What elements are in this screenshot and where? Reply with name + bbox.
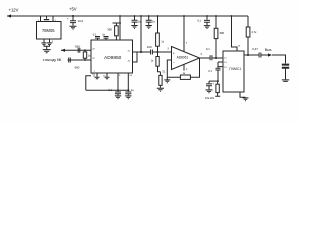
resistor R2 390	[115, 23, 117, 40]
capacitor C1	[44, 16, 49, 21]
wire chip pin jog	[133, 52, 138, 62]
wire DA2 bottom pin to ground	[240, 92, 246, 97]
capacitor C12 chip bottom stub	[105, 73, 110, 79]
svg-text:680: 680	[220, 31, 225, 35]
op-amp DA1 AD8061	[172, 47, 200, 70]
svg-text:78М05: 78М05	[42, 28, 55, 33]
wire DA2 aux pins	[218, 62, 223, 68]
svg-text:+12V: +12V	[9, 8, 19, 13]
ground for R6	[157, 88, 164, 91]
wire rail to op-amp pin7	[183, 15, 185, 17]
svg-text:+: +	[67, 17, 69, 21]
svg-text:560: 560	[75, 45, 80, 49]
ground for C13	[115, 96, 121, 99]
svg-text:AD8061: AD8061	[177, 55, 189, 59]
capacitor C3 under regulator	[47, 39, 52, 44]
junction R3 bottom	[84, 59, 86, 61]
svg-text:10,0: 10,0	[78, 19, 84, 23]
svg-text:100: 100	[147, 45, 152, 49]
svg-text:680: 680	[75, 66, 80, 70]
svg-text:390: 390	[107, 28, 112, 32]
wire rail to DA2 top pin	[231, 15, 233, 17]
junction bias node	[217, 80, 219, 82]
wire rail to AD9850 Vcc	[119, 15, 121, 17]
wire AD9850 output	[133, 51, 151, 53]
capacitor C11 chip bottom stub	[95, 73, 100, 79]
resistor R3 1k	[84, 50, 86, 60]
wire to bias network	[209, 80, 218, 82]
node output arrow	[268, 53, 272, 56]
svg-text:0,1: 0,1	[206, 47, 210, 51]
ground load	[282, 80, 289, 82]
capacitor C21 on rail	[206, 15, 208, 17]
junction +5V	[72, 15, 74, 17]
regulator U1 output pin stub	[52, 16, 54, 22]
resistor R8 680 from rail	[215, 15, 217, 17]
svg-text:0,1: 0,1	[93, 32, 97, 36]
node +12V arrow	[7, 14, 11, 17]
resistor R9	[217, 81, 219, 84]
wire inverting feedback loop	[167, 58, 199, 77]
wire W_CLK to MCU	[61, 49, 91, 51]
IC DD1 AD9850	[91, 40, 133, 73]
ground at feedback corner	[164, 77, 170, 83]
svg-text:1н: 1н	[131, 88, 134, 92]
capacitor C15 coupling	[151, 50, 172, 55]
ground for C18	[206, 90, 213, 93]
svg-text:4,7к: 4,7к	[251, 30, 257, 34]
svg-text:Вых.: Вых.	[265, 48, 273, 52]
svg-text:+5V: +5V	[69, 7, 77, 12]
IC DA2 right chip	[223, 51, 244, 92]
svg-text:к выходу МК: к выходу МК	[43, 58, 62, 62]
capacitor C4 10u polarized	[70, 16, 76, 26]
capacitor C6 on rail	[148, 15, 150, 17]
resistor R4 from rail	[157, 15, 159, 17]
wire to load	[272, 55, 286, 63]
capacitor C8 on chip top	[104, 37, 109, 41]
svg-text:0,1: 0,1	[108, 88, 112, 92]
ground DA2	[243, 98, 249, 101]
capacitor C9 on W_CLK	[78, 48, 80, 53]
regulator U1 input pin stub	[40, 16, 42, 22]
svg-text:−: −	[173, 60, 175, 64]
capacitor C20 load	[282, 65, 289, 68]
ground for C14	[125, 96, 131, 99]
capacitor C13 below bus	[117, 89, 119, 91]
wire DA2 output	[244, 54, 259, 56]
ground for C6	[146, 26, 152, 29]
wire AGND loop left	[86, 76, 91, 91]
svg-text:0,47: 0,47	[252, 47, 258, 51]
node arrow to MCU	[61, 49, 65, 52]
capacitor C19 output coupling	[259, 53, 268, 58]
capacitor C2 under regulator	[41, 39, 46, 44]
ground for C5	[131, 26, 137, 29]
ground under regulator	[43, 45, 51, 53]
wire chip pin to bus	[117, 73, 119, 90]
capacitor C7 on chip top	[95, 37, 100, 41]
capacitor C5 on rail	[134, 15, 136, 17]
svg-text:0,1: 0,1	[197, 19, 201, 23]
wire op-amp pin4	[183, 64, 185, 70]
svg-text:10к-20к: 10к-20к	[205, 96, 215, 100]
capacitor C17	[216, 68, 221, 81]
svg-text:ПЧМС1: ПЧМС1	[229, 67, 241, 71]
capacitor C14 below bus	[127, 89, 129, 91]
wire ground bus	[86, 89, 130, 91]
wire +12V power rail	[7, 15, 248, 17]
svg-text:+: +	[212, 81, 214, 85]
wire chip pin to bus	[127, 73, 129, 90]
node bar above R2	[113, 22, 122, 24]
capacitor C16 coupling	[210, 55, 223, 60]
resistor R5	[157, 52, 159, 57]
wire op-amp output	[200, 57, 211, 59]
wire DATA line	[68, 59, 92, 61]
junction R3 top	[84, 49, 86, 51]
svg-text:+: +	[173, 52, 175, 56]
ground for C21	[204, 26, 210, 29]
capacitor C10 on DATA	[69, 58, 71, 63]
ground for C4	[70, 26, 77, 29]
svg-text:AD9850: AD9850	[104, 55, 122, 61]
regulator U1	[37, 22, 62, 40]
resistor R7 feedback	[180, 75, 190, 79]
resistor R10 from rail	[247, 16, 249, 55]
svg-text:1н: 1н	[152, 20, 155, 24]
wire rail drop to output node	[140, 15, 142, 17]
svg-text:0,1: 0,1	[208, 69, 212, 73]
capacitor C18 polarized	[206, 81, 212, 89]
resistor R6 to ground	[159, 72, 161, 76]
